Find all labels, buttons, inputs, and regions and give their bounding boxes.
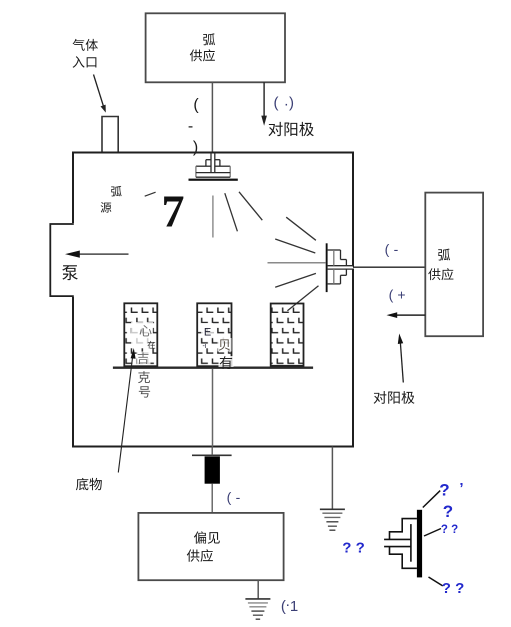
support rod below table — [212, 369, 214, 447]
svg-text:): ) — [289, 95, 294, 112]
labels below substrate 1 (克 号) — [138, 371, 150, 397]
label 弧源 — [101, 186, 122, 213]
svg-text:-: - — [236, 489, 241, 505]
arrow up to anode wire — [398, 334, 404, 383]
label ( + (right) — [389, 287, 406, 303]
svg-text:? ?: ? ? — [441, 524, 458, 536]
box bias supply — [138, 513, 283, 580]
ground symbol (chamber) — [320, 509, 345, 530]
detail label ?? (left) — [342, 540, 365, 557]
plasma rays from right cathode — [268, 217, 326, 311]
label gas inlet (气体/入口) — [73, 39, 98, 68]
label ( - (right) — [385, 241, 399, 257]
arrow gas inlet leader — [94, 75, 106, 113]
wire top box to cathode — [211, 82, 213, 152]
detail leader 1 (top) — [423, 491, 440, 508]
wire bias supply to ground — [257, 580, 259, 598]
label 泵 — [62, 265, 78, 280]
svg-text:1: 1 — [290, 598, 298, 615]
substrate 2 — [197, 303, 231, 366]
box arc supply (right) — [425, 193, 483, 337]
svg-text:-: - — [188, 118, 193, 135]
substrate holder table — [113, 367, 313, 369]
label ( - ) on cathode wire — [188, 97, 200, 157]
box arc supply (top) — [146, 13, 285, 82]
cathode assembly (right wall) — [326, 243, 355, 292]
substrate 1 — [124, 303, 157, 366]
detail leader 2 (middle) — [424, 529, 441, 537]
label (·1 — [281, 596, 298, 615]
pump port — [50, 224, 74, 296]
label ( - (bias) — [227, 489, 241, 505]
feedthrough plate — [192, 454, 232, 456]
leader arc source — [145, 192, 156, 196]
anode arrow (right) — [387, 312, 426, 318]
svg-text:?: ? — [443, 502, 453, 521]
wire chamber to ground — [331, 447, 333, 509]
detail leader 3 (bottom) — [429, 577, 443, 586]
svg-text:? ?: ? ? — [342, 540, 365, 557]
wire+arrow to anode (top) — [261, 82, 267, 126]
svg-text:+: + — [397, 287, 405, 303]
detail: cathode target bar — [417, 510, 422, 578]
svg-text:(: ( — [389, 287, 394, 303]
label ( .) — [274, 93, 295, 112]
cathode assembly (top) — [189, 153, 238, 181]
garbled text over substrate 1 (心在吉) — [131, 322, 155, 365]
chamber wall — [71, 153, 354, 447]
detail: holder outline — [384, 519, 417, 569]
label 对阳极 (bottom right) — [374, 391, 415, 404]
svg-text:-i: -i — [203, 343, 207, 350]
svg-text:’: ’ — [459, 480, 463, 497]
svg-text:.: . — [284, 93, 288, 110]
plasma rays from top cathode — [213, 192, 262, 238]
label 偏见 供应 — [187, 531, 220, 562]
svg-text:?: ? — [439, 481, 449, 500]
leader arrow to substrate (底物) — [118, 348, 135, 473]
detail label ?? (bottom) — [442, 580, 465, 597]
wire right cathode to right supply — [353, 266, 425, 268]
substrate 3 — [271, 304, 304, 366]
label 底物 — [76, 478, 102, 491]
wire feedthrough to bias supply — [211, 484, 213, 513]
label 对阳极 (top) — [268, 122, 313, 136]
detail label ? (top) — [439, 480, 463, 500]
svg-text:(: ( — [227, 489, 232, 505]
ground symbol (bias) — [245, 599, 270, 619]
svg-text:(: ( — [385, 241, 390, 257]
label 弧 供应 (right box) — [428, 249, 453, 281]
detail label ?? (middle) — [441, 524, 458, 536]
pump arrow — [65, 251, 129, 258]
feedthrough body (black) — [205, 447, 220, 484]
svg-text:E: E — [204, 327, 211, 339]
svg-text:(: ( — [274, 95, 279, 112]
label 弧 供应 (top box) — [190, 33, 215, 61]
svg-text:7: 7 — [162, 186, 185, 237]
svg-text:-: - — [394, 241, 399, 257]
svg-text:? ?: ? ? — [442, 580, 465, 597]
svg-text:(: ( — [193, 97, 199, 114]
gas inlet port (chimney) — [102, 117, 118, 153]
detail label ? (second) — [443, 502, 453, 521]
garbled text over substrate 2 (E 贝 有) — [201, 323, 234, 369]
big numeral 7 — [162, 186, 185, 237]
